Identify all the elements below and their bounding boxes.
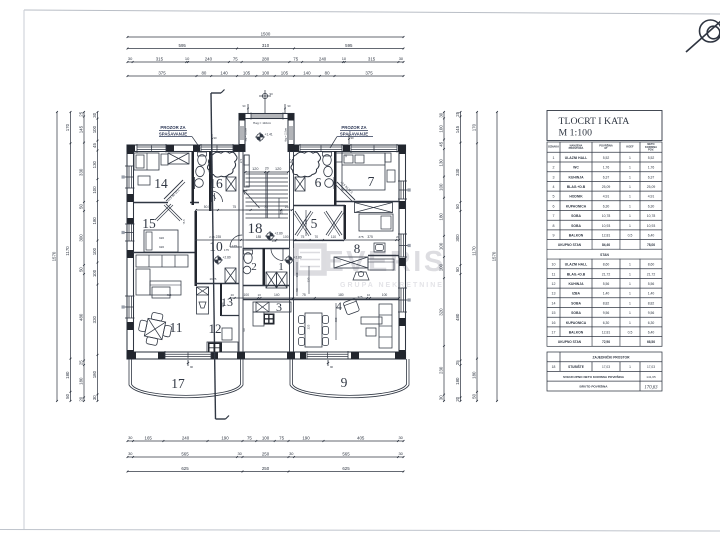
svg-text:HODNIK: HODNIK (569, 195, 583, 199)
svg-text:1: 1 (629, 321, 631, 325)
svg-text:12,81: 12,81 (602, 234, 611, 238)
svg-text:50: 50 (78, 267, 83, 272)
svg-text:180: 180 (92, 370, 97, 378)
svg-text:180: 180 (438, 213, 443, 221)
svg-text:8,60: 8,60 (648, 263, 655, 267)
svg-text:18: 18 (248, 221, 263, 237)
svg-text:IZBA: IZBA (572, 292, 580, 296)
svg-text:70: 70 (264, 205, 268, 209)
svg-text:UKUPNO STAN: UKUPNO STAN (558, 340, 582, 344)
svg-text:1: 1 (629, 204, 631, 208)
svg-text:6: 6 (315, 175, 322, 190)
svg-text:17: 17 (171, 376, 185, 391)
svg-text:0,5: 0,5 (628, 331, 633, 335)
svg-text:SOBA: SOBA (571, 214, 581, 218)
svg-text:50: 50 (78, 204, 83, 209)
svg-text:+1.41: +1.41 (265, 133, 273, 137)
svg-text:BLAG.+D.B: BLAG.+D.B (567, 185, 586, 189)
svg-text:50: 50 (455, 204, 460, 209)
svg-text:595: 595 (345, 43, 353, 48)
svg-text:140: 140 (220, 70, 228, 75)
svg-text:100: 100 (283, 235, 289, 239)
svg-text:625: 625 (342, 466, 350, 471)
svg-text:KUHINJA: KUHINJA (568, 282, 584, 286)
svg-text:5: 5 (553, 195, 555, 199)
svg-text:100: 100 (262, 435, 270, 440)
svg-text:1170: 1170 (65, 246, 70, 256)
svg-text:180: 180 (92, 217, 97, 225)
svg-text:0,5: 0,5 (628, 234, 633, 238)
svg-text:8: 8 (553, 224, 555, 228)
svg-text:180: 180 (65, 371, 70, 379)
svg-text:25,09: 25,09 (647, 185, 656, 189)
svg-text:POV.: POV. (648, 148, 654, 152)
svg-text:110: 110 (331, 235, 336, 239)
svg-text:375: 375 (358, 235, 363, 239)
svg-text:90: 90 (214, 136, 218, 140)
svg-text:75: 75 (293, 56, 298, 61)
svg-text:280: 280 (262, 56, 270, 61)
svg-text:STAN: STAN (600, 253, 609, 257)
svg-text:175: 175 (224, 248, 229, 252)
svg-text:1: 1 (629, 214, 631, 218)
svg-text:SOBA: SOBA (571, 224, 581, 228)
svg-text:1: 1 (629, 263, 631, 267)
svg-text:30: 30 (92, 112, 97, 117)
svg-text:Hag = 110cm: Hag = 110cm (253, 121, 272, 125)
svg-text:180: 180 (471, 371, 476, 379)
svg-text:29 75: 29 75 (210, 277, 217, 281)
svg-text:100: 100 (382, 293, 388, 297)
svg-text:120: 120 (252, 167, 258, 171)
svg-text:75: 75 (302, 293, 306, 297)
svg-text:1: 1 (629, 301, 631, 305)
svg-text:KUHINJA: KUHINJA (568, 175, 584, 179)
svg-text:250: 250 (262, 466, 270, 471)
svg-text:1: 1 (629, 195, 631, 199)
svg-text:4,91: 4,91 (603, 195, 610, 199)
svg-text:5,56: 5,56 (648, 282, 655, 286)
svg-text:5,52: 5,52 (648, 156, 655, 160)
svg-text:315: 315 (368, 56, 376, 61)
svg-text:75.5: 75.5 (182, 219, 186, 225)
svg-text:10: 10 (258, 293, 262, 297)
svg-text:75: 75 (232, 205, 236, 209)
svg-text:130: 130 (438, 159, 443, 167)
svg-text:100: 100 (92, 269, 97, 277)
svg-text:14: 14 (154, 176, 168, 191)
svg-text:1570: 1570 (51, 251, 56, 261)
svg-text:2: 2 (251, 261, 257, 273)
svg-text:75: 75 (233, 56, 238, 61)
svg-text:5,52: 5,52 (603, 156, 610, 160)
svg-text:1: 1 (629, 156, 631, 160)
svg-text:11: 11 (552, 272, 556, 276)
svg-text:PROZOR ZA: PROZOR ZA (160, 125, 185, 130)
svg-text:M 1:100: M 1:100 (559, 128, 593, 139)
svg-text:90: 90 (270, 92, 274, 96)
svg-text:100: 100 (438, 263, 443, 271)
svg-text:10: 10 (209, 239, 223, 254)
svg-text:BRUTO POVRŠINA: BRUTO POVRŠINA (580, 384, 609, 389)
svg-text:4: 4 (553, 185, 555, 189)
svg-text:240: 240 (182, 435, 190, 440)
svg-text:1: 1 (629, 292, 631, 296)
svg-text:+2.89: +2.89 (275, 232, 283, 236)
svg-text:1: 1 (629, 224, 631, 228)
svg-text:330: 330 (455, 168, 460, 176)
svg-text:SPAŠAVANJE: SPAŠAVANJE (340, 131, 368, 136)
svg-text:5: 5 (311, 216, 318, 231)
svg-text:300: 300 (455, 234, 460, 242)
svg-text:70: 70 (314, 235, 318, 239)
svg-text:6: 6 (553, 204, 555, 208)
svg-text:GRUPA NEKRETNINE: GRUPA NEKRETNINE (340, 282, 444, 289)
svg-text:595: 595 (179, 43, 187, 48)
svg-text:1: 1 (629, 282, 631, 286)
svg-text:100: 100 (262, 70, 270, 75)
svg-text:21,72: 21,72 (602, 272, 611, 276)
svg-text:25: 25 (455, 360, 460, 365)
svg-text:240: 240 (205, 56, 213, 61)
svg-text:SVEUKUPNO NETO KORISNA POVRŠIN: SVEUKUPNO NETO KORISNA POVRŠINA (563, 374, 625, 379)
svg-text:170: 170 (65, 123, 70, 131)
svg-text:240: 240 (319, 56, 327, 61)
svg-text:30: 30 (438, 112, 443, 117)
svg-text:72,96: 72,96 (602, 340, 610, 344)
svg-text:315: 315 (156, 56, 164, 61)
svg-text:12: 12 (209, 321, 222, 336)
svg-text:13: 13 (552, 292, 556, 296)
svg-text:310: 310 (262, 43, 270, 48)
svg-text:20: 20 (455, 396, 460, 401)
svg-text:190: 190 (302, 435, 310, 440)
svg-text:+2.89: +2.89 (294, 256, 302, 260)
svg-text:80: 80 (201, 70, 206, 75)
svg-text:30: 30 (92, 395, 97, 400)
svg-text:17: 17 (552, 331, 556, 335)
svg-text:OZNAKA: OZNAKA (548, 145, 559, 149)
svg-text:15: 15 (552, 311, 556, 315)
svg-text:375: 375 (367, 235, 373, 239)
svg-text:1,40: 1,40 (648, 292, 655, 296)
svg-text:18: 18 (552, 365, 556, 369)
svg-text:25: 25 (78, 360, 83, 365)
svg-text:375: 375 (158, 70, 166, 75)
svg-text:300: 300 (78, 234, 83, 242)
svg-text:45: 45 (92, 143, 97, 148)
svg-text:141,65: 141,65 (646, 375, 656, 379)
svg-text:Hag = 110cm: Hag = 110cm (245, 128, 248, 142)
svg-text:+2.89: +2.89 (223, 256, 231, 260)
svg-text:3: 3 (276, 300, 282, 314)
svg-text:KUPAONICA: KUPAONICA (566, 204, 587, 208)
svg-text:1: 1 (629, 175, 631, 179)
svg-text:90: 90 (330, 365, 334, 369)
svg-text:6,37: 6,37 (603, 175, 610, 179)
svg-text:100: 100 (92, 125, 97, 133)
svg-text:25: 25 (78, 111, 83, 116)
svg-text:375: 375 (365, 70, 373, 75)
svg-text:90: 90 (242, 328, 246, 332)
svg-text:10,78: 10,78 (647, 214, 656, 218)
svg-text:165: 165 (145, 435, 153, 440)
svg-text:12: 12 (552, 282, 556, 286)
svg-text:75: 75 (301, 235, 305, 239)
svg-text:SOBA: SOBA (571, 311, 581, 315)
svg-text:Hag = 110cm: Hag = 110cm (285, 128, 288, 142)
svg-text:45: 45 (438, 141, 443, 146)
svg-text:4: 4 (336, 301, 342, 313)
svg-text:1: 1 (629, 166, 631, 170)
svg-text:1: 1 (629, 365, 631, 369)
svg-text:10,93: 10,93 (602, 224, 611, 228)
svg-text:180: 180 (78, 377, 83, 385)
svg-text:10: 10 (367, 293, 371, 297)
svg-text:1570: 1570 (491, 251, 496, 261)
svg-text:16: 16 (209, 176, 223, 191)
svg-text:50: 50 (455, 267, 460, 272)
svg-text:8,82: 8,82 (603, 301, 610, 305)
svg-text:75: 75 (279, 435, 284, 440)
svg-text:20: 20 (265, 167, 269, 171)
svg-text:66,56: 66,56 (647, 340, 655, 344)
svg-text:330: 330 (78, 168, 83, 176)
svg-text:PROSTORA: PROSTORA (569, 146, 584, 150)
svg-text:105: 105 (281, 70, 289, 75)
svg-text:11: 11 (170, 320, 183, 335)
svg-text:UKUPNO STAN: UKUPNO STAN (558, 243, 582, 247)
svg-text:90: 90 (351, 136, 355, 140)
svg-text:16: 16 (552, 321, 556, 325)
svg-text:100: 100 (244, 293, 250, 297)
svg-text:1: 1 (553, 156, 555, 160)
svg-text:13: 13 (221, 295, 233, 309)
svg-text:KUPAONICA: KUPAONICA (566, 321, 587, 325)
svg-text:1500: 1500 (261, 31, 271, 36)
svg-text:10,78: 10,78 (602, 214, 611, 218)
svg-text:170,63: 170,63 (644, 385, 658, 390)
svg-text:6,30: 6,30 (603, 204, 610, 208)
svg-text:480: 480 (455, 313, 460, 321)
svg-text:270: 270 (288, 158, 292, 163)
svg-text:9,56: 9,56 (603, 311, 610, 315)
svg-text:SOBA: SOBA (571, 301, 581, 305)
svg-text:25,09: 25,09 (602, 185, 611, 189)
svg-text:8: 8 (354, 241, 361, 256)
svg-text:20: 20 (396, 235, 400, 239)
svg-text:9,56: 9,56 (648, 311, 655, 315)
svg-text:90: 90 (190, 365, 194, 369)
svg-text:225: 225 (307, 324, 311, 329)
svg-text:1: 1 (629, 311, 631, 315)
svg-text:250: 250 (262, 451, 270, 456)
svg-text:ULAZNI HALL: ULAZNI HALL (565, 156, 587, 160)
svg-text:TLOCRT I KATA: TLOCRT I KATA (559, 116, 630, 127)
svg-text:100: 100 (438, 242, 443, 250)
svg-text:180: 180 (338, 293, 344, 297)
svg-text:3: 3 (553, 175, 555, 179)
svg-text:320: 320 (159, 245, 164, 249)
svg-text:6,40: 6,40 (648, 234, 655, 238)
svg-text:12,81: 12,81 (602, 331, 611, 335)
svg-text:ZAJEDNIČKI PROSTOR: ZAJEDNIČKI PROSTOR (593, 354, 631, 359)
svg-text:100: 100 (438, 183, 443, 191)
svg-text:6,40: 6,40 (648, 331, 655, 335)
svg-text:BLAG.+D.B: BLAG.+D.B (567, 272, 586, 276)
svg-text:625: 625 (181, 466, 189, 471)
svg-text:140: 140 (303, 70, 311, 75)
svg-text:6,37: 6,37 (648, 175, 655, 179)
svg-text:415: 415 (167, 293, 172, 297)
svg-text:BALKON: BALKON (569, 331, 584, 335)
svg-text:1,76: 1,76 (648, 166, 655, 170)
svg-text:320: 320 (438, 308, 443, 316)
svg-text:145: 145 (78, 125, 83, 133)
svg-text:7: 7 (553, 214, 555, 218)
svg-text:WC: WC (573, 166, 579, 170)
svg-text:9: 9 (553, 234, 555, 238)
svg-text:405: 405 (357, 435, 365, 440)
svg-text:175: 175 (232, 244, 237, 248)
svg-text:STUBIŠTE: STUBIŠTE (568, 364, 584, 369)
svg-text:140: 140 (274, 293, 280, 297)
svg-text:320: 320 (159, 236, 164, 240)
svg-text:1170: 1170 (471, 246, 476, 256)
svg-text:50.5: 50.5 (204, 205, 211, 209)
svg-text:130: 130 (92, 160, 97, 168)
svg-text:21,72: 21,72 (647, 272, 656, 276)
svg-text:100: 100 (92, 186, 97, 194)
svg-text:1: 1 (629, 272, 631, 276)
svg-text:PROZOR ZA: PROZOR ZA (341, 125, 366, 130)
svg-text:1,76: 1,76 (603, 166, 610, 170)
svg-text:80: 80 (325, 70, 330, 75)
svg-text:75: 75 (247, 435, 252, 440)
svg-text:145: 145 (455, 125, 460, 133)
svg-text:30: 30 (438, 395, 443, 400)
svg-text:1: 1 (629, 185, 631, 189)
svg-text:565: 565 (181, 451, 189, 456)
svg-text:180: 180 (455, 377, 460, 385)
svg-text:270: 270 (239, 158, 243, 163)
svg-text:10: 10 (552, 263, 556, 267)
svg-text:8,60: 8,60 (603, 263, 610, 267)
svg-text:78,06: 78,06 (647, 243, 655, 247)
svg-text:7: 7 (368, 174, 375, 189)
svg-text:50: 50 (65, 393, 70, 398)
svg-text:190: 190 (221, 435, 229, 440)
svg-text:6,30: 6,30 (648, 204, 655, 208)
svg-text:120: 120 (275, 167, 281, 171)
svg-text:M²: M² (604, 146, 607, 150)
svg-text:230: 230 (438, 366, 443, 374)
svg-text:1: 1 (278, 261, 284, 273)
svg-text:6,30: 6,30 (648, 321, 655, 325)
svg-text:8,82: 8,82 (648, 301, 655, 305)
svg-text:25: 25 (285, 205, 289, 209)
svg-text:50: 50 (471, 393, 476, 398)
svg-text:SPAŠAVANJE: SPAŠAVANJE (159, 131, 187, 136)
svg-text:2: 2 (553, 166, 555, 170)
svg-text:9: 9 (341, 375, 348, 390)
svg-text:100: 100 (438, 125, 443, 133)
svg-text:6,30: 6,30 (603, 321, 610, 325)
svg-text:4,91: 4,91 (648, 195, 655, 199)
svg-text:25: 25 (455, 111, 460, 116)
svg-text:17,03: 17,03 (647, 365, 655, 369)
svg-text:120: 120 (307, 277, 311, 282)
svg-text:KOEF: KOEF (626, 145, 634, 149)
svg-text:BALKON: BALKON (569, 234, 584, 238)
svg-text:375: 375 (357, 295, 362, 299)
svg-text:15: 15 (142, 216, 156, 231)
svg-text:ULAZNI HALL: ULAZNI HALL (565, 263, 587, 267)
svg-text:1,40: 1,40 (603, 292, 610, 296)
svg-text:565: 565 (342, 451, 350, 456)
svg-text:84,46: 84,46 (602, 243, 610, 247)
svg-text:100: 100 (92, 247, 97, 255)
svg-text:170: 170 (471, 123, 476, 131)
svg-text:17,03: 17,03 (602, 365, 610, 369)
svg-text:20: 20 (78, 396, 83, 401)
svg-text:14: 14 (552, 301, 556, 305)
svg-text:10,93: 10,93 (647, 224, 656, 228)
svg-text:105: 105 (243, 70, 251, 75)
svg-text:5,56: 5,56 (603, 282, 610, 286)
svg-text:320: 320 (92, 315, 97, 323)
svg-text:480: 480 (78, 313, 83, 321)
